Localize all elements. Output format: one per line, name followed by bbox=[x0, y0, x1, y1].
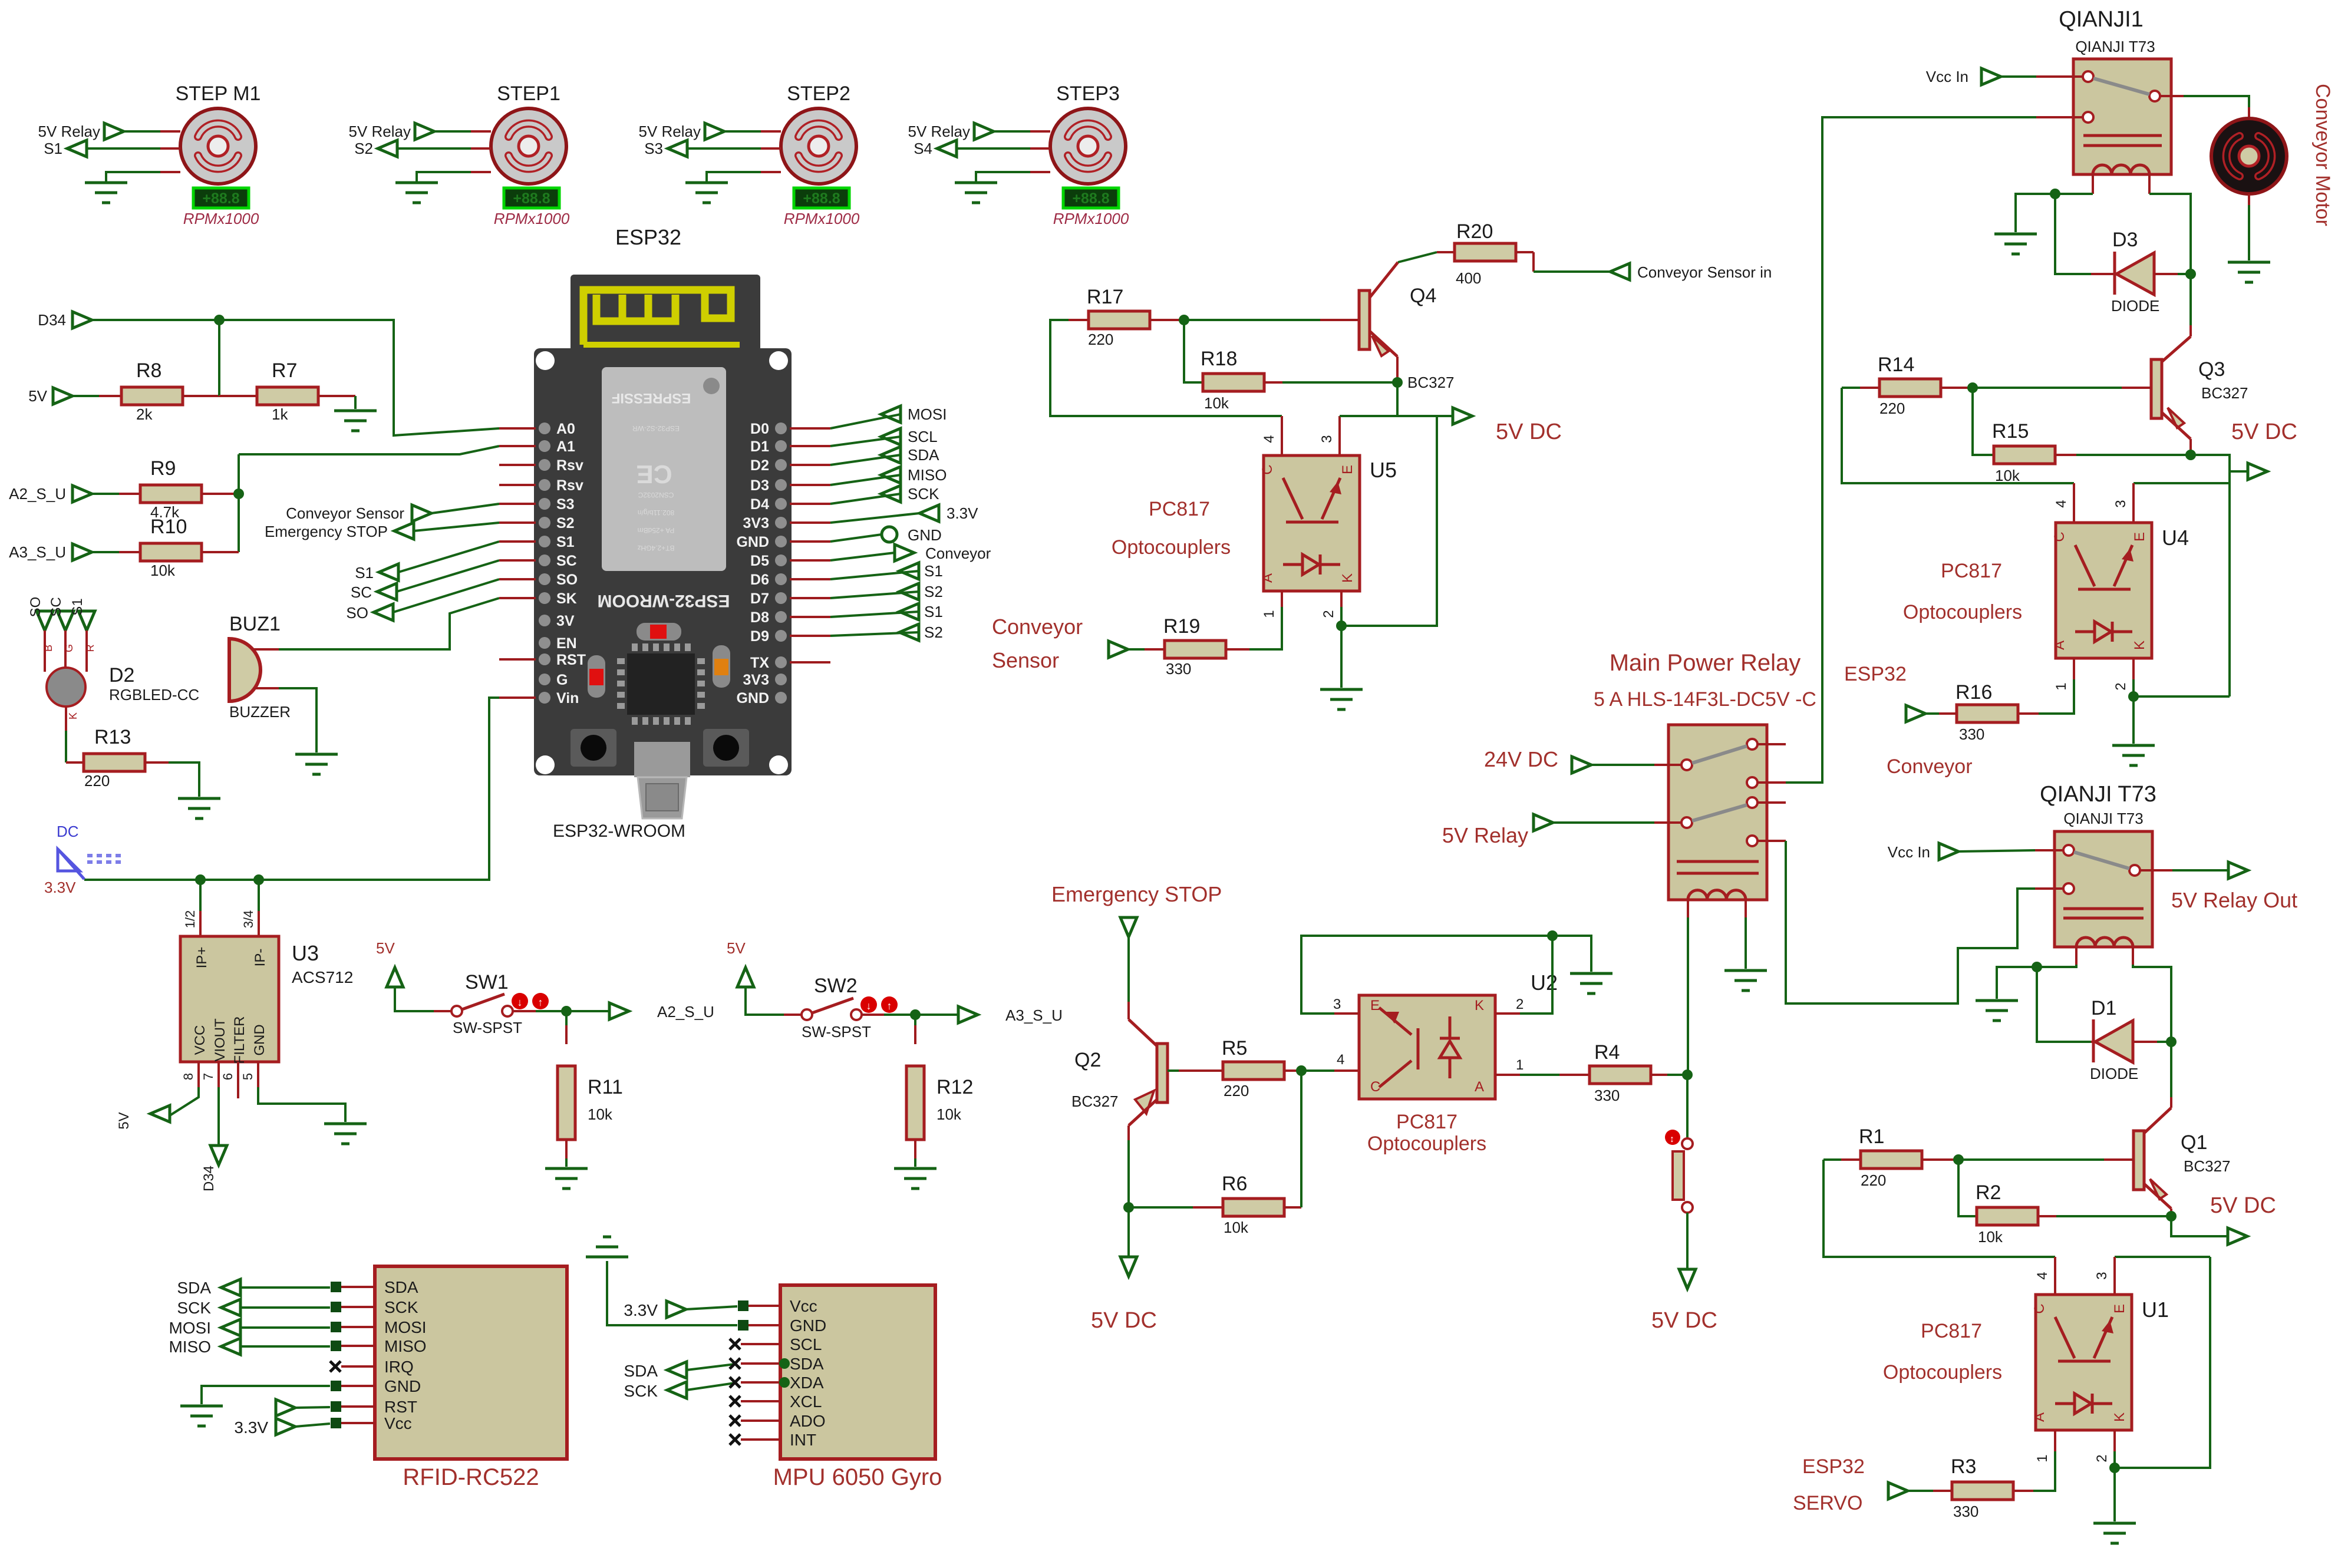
svg-text:VCC: VCC bbox=[192, 1025, 208, 1055]
relay QIANJI1 (QIANJI T73) bbox=[2073, 59, 2171, 174]
terminal S1 (D2) bbox=[78, 611, 95, 630]
terminal S2 (ESP32) bbox=[899, 624, 919, 641]
ground (QIANJI1 coil) bbox=[1994, 233, 2037, 236]
svg-text:SC: SC bbox=[351, 583, 372, 601]
resistor R3 bbox=[2013, 1490, 2033, 1492]
svg-text:Optocouplers: Optocouplers bbox=[1112, 536, 1231, 559]
svg-text:3: 3 bbox=[1333, 996, 1341, 1012]
svg-text:SW1: SW1 bbox=[465, 971, 509, 993]
terminal 5V DC (Q3 out) bbox=[2230, 470, 2248, 473]
svg-text:+88.8: +88.8 bbox=[202, 190, 239, 207]
motor Conveyor Motor bbox=[2211, 118, 2287, 194]
wire base Q4 bbox=[1184, 319, 1320, 321]
svg-text:QIANJI T73: QIANJI T73 bbox=[2040, 782, 2156, 807]
svg-text:D2: D2 bbox=[750, 457, 769, 474]
wire bbox=[1534, 270, 1610, 273]
svg-text:S4: S4 bbox=[914, 140, 932, 157]
resistor R5 bbox=[1223, 1062, 1284, 1080]
ground (R13) bbox=[178, 797, 220, 800]
terminal Conveyor Sensor (to S3) bbox=[412, 505, 431, 521]
wire (U5 pin4 net) bbox=[1050, 320, 1282, 416]
terminal S1 (ESP32) bbox=[899, 563, 919, 579]
svg-text:SDA: SDA bbox=[790, 1355, 824, 1373]
terminal 5V DC (Q2 out) bbox=[1120, 1257, 1137, 1276]
svg-text:S2: S2 bbox=[556, 515, 575, 532]
terminal S2 (ESP32) bbox=[899, 583, 919, 600]
transistor Q1 (BC327) bbox=[2170, 1097, 2172, 1108]
svg-text:R9: R9 bbox=[150, 457, 176, 480]
ground (relay 2) bbox=[1976, 999, 2018, 1002]
terminal MISO (RFID) bbox=[221, 1338, 240, 1355]
svg-text:MPU 6050 Gyro: MPU 6050 Gyro bbox=[773, 1464, 942, 1490]
wire U4 pin4 bbox=[1842, 388, 2074, 483]
wire to 5V DC and U4 bbox=[2191, 455, 2230, 696]
pin stub RST bbox=[499, 658, 536, 661]
svg-text:1: 1 bbox=[2053, 682, 2069, 690]
svg-text:BUZ1: BUZ1 bbox=[229, 613, 281, 635]
resistor R16 bbox=[2018, 712, 2039, 715]
resistor R11 bbox=[565, 1011, 568, 1025]
button right bbox=[703, 729, 749, 767]
svg-text:2: 2 bbox=[2113, 682, 2129, 690]
svg-text:Q1: Q1 bbox=[2181, 1131, 2207, 1154]
terminal MOSI (RFID) bbox=[221, 1319, 240, 1336]
svg-text:RPMx1000: RPMx1000 bbox=[494, 210, 570, 227]
resistor R7 bbox=[219, 395, 257, 397]
wire bbox=[790, 540, 830, 543]
svg-text:G: G bbox=[63, 644, 75, 652]
svg-text:GND: GND bbox=[252, 1024, 268, 1055]
wire bbox=[2133, 695, 2230, 698]
terminal 5V Relay (STEP M1) bbox=[104, 123, 124, 140]
svg-text:CE: CE bbox=[636, 460, 672, 488]
svg-text:MISO: MISO bbox=[908, 466, 947, 484]
svg-text:4: 4 bbox=[2053, 500, 2069, 507]
wire bbox=[790, 464, 830, 466]
terminal 3.3V (ESP32) bbox=[919, 505, 939, 521]
wire to ground (U2) bbox=[1552, 936, 1591, 972]
wire bbox=[790, 616, 830, 618]
svg-text:400: 400 bbox=[1456, 269, 1481, 287]
svg-text:RFID-RC522: RFID-RC522 bbox=[403, 1464, 539, 1490]
wire pin2 (U5) bbox=[1340, 591, 1343, 607]
terminal Conveyor (ESP32 D5) bbox=[895, 544, 914, 561]
svg-text:BC327: BC327 bbox=[2201, 384, 2248, 402]
wire bbox=[1127, 937, 1130, 1002]
svg-text:K: K bbox=[67, 712, 79, 719]
wire bbox=[1667, 1074, 1688, 1076]
svg-text:SW-SPST: SW-SPST bbox=[453, 1019, 522, 1036]
svg-text:RPMx1000: RPMx1000 bbox=[183, 210, 259, 227]
svg-text:3.3V: 3.3V bbox=[44, 879, 76, 896]
wire bbox=[1282, 381, 1397, 384]
wire bbox=[790, 427, 830, 430]
svg-text:330: 330 bbox=[1166, 660, 1191, 678]
svg-text:10k: 10k bbox=[1978, 1228, 2003, 1246]
wire right loop (U1) bbox=[2115, 1257, 2210, 1468]
svg-text:R15: R15 bbox=[1992, 420, 2029, 443]
led red bbox=[637, 623, 681, 641]
svg-text:3V3: 3V3 bbox=[743, 672, 769, 688]
wire bbox=[2076, 454, 2191, 456]
optocoupler U5 (PC817) bbox=[1281, 416, 1283, 455]
svg-text:A: A bbox=[2052, 641, 2067, 650]
svg-text:IP-: IP- bbox=[252, 949, 268, 967]
svg-text:R13: R13 bbox=[94, 726, 131, 748]
stepper motor STEP1 bbox=[491, 108, 566, 184]
svg-text:Q2: Q2 bbox=[1074, 1049, 1101, 1071]
svg-text:5: 5 bbox=[240, 1073, 255, 1080]
pin stub TX bbox=[790, 661, 830, 663]
svg-text:MOSI: MOSI bbox=[908, 405, 947, 423]
ground (RFID) bbox=[180, 1405, 223, 1408]
svg-text:K: K bbox=[1340, 573, 1356, 583]
svg-text:D2: D2 bbox=[109, 664, 134, 686]
wire bbox=[790, 521, 830, 524]
svg-text:5V Relay: 5V Relay bbox=[38, 123, 101, 140]
switch arm 2 bbox=[1692, 805, 1747, 821]
svg-text:Vcc: Vcc bbox=[790, 1297, 817, 1315]
wire bbox=[238, 454, 240, 552]
resistor R2 bbox=[1958, 1160, 1976, 1216]
svg-text:G: G bbox=[556, 672, 568, 688]
svg-text:SCL: SCL bbox=[908, 428, 938, 445]
terminal S1 (ESP32) bbox=[899, 603, 919, 620]
svg-text:D7: D7 bbox=[750, 590, 769, 607]
svg-text:R19: R19 bbox=[1163, 615, 1200, 638]
wire bbox=[354, 396, 357, 409]
wire bbox=[414, 523, 499, 531]
resistor R20 bbox=[1437, 251, 1455, 253]
svg-text:PC817: PC817 bbox=[1921, 1320, 1982, 1342]
svg-text:K: K bbox=[1475, 998, 1484, 1014]
svg-text:BUZZER: BUZZER bbox=[229, 703, 291, 721]
wire bbox=[471, 171, 491, 173]
svg-text:10k: 10k bbox=[936, 1105, 962, 1123]
svg-text:SO: SO bbox=[28, 597, 44, 618]
svg-text:XCL: XCL bbox=[790, 1392, 822, 1411]
wire GND (MPU) bbox=[738, 1320, 748, 1331]
terminal SC (D2) bbox=[57, 611, 74, 630]
wire base Q1 bbox=[1958, 1158, 2104, 1161]
svg-text:BC327: BC327 bbox=[2184, 1157, 2231, 1175]
svg-text:SDA: SDA bbox=[908, 446, 939, 464]
pin ADO (nc) bbox=[730, 1415, 740, 1426]
wire bbox=[240, 1286, 330, 1289]
svg-text:10k: 10k bbox=[1204, 394, 1229, 412]
wire bbox=[258, 1087, 345, 1122]
terminal SCL bbox=[881, 428, 901, 445]
wire coil left to R4 node bbox=[1687, 917, 1689, 1075]
svg-text:STEP3: STEP3 bbox=[1056, 82, 1120, 105]
wire to conveyor motor bbox=[2184, 96, 2249, 107]
optocoupler U4 (PC817) bbox=[2056, 523, 2152, 658]
svg-text:U4: U4 bbox=[2162, 526, 2189, 550]
svg-text:SCK: SCK bbox=[384, 1298, 418, 1316]
terminal ESP32 Conveyor (R16 input) bbox=[1906, 705, 1925, 722]
svg-text:BT+2.4GHz: BT+2.4GHz bbox=[637, 544, 674, 552]
svg-text:R4: R4 bbox=[1594, 1041, 1620, 1064]
wire bbox=[790, 578, 830, 580]
wire bbox=[397, 147, 471, 150]
svg-text:220: 220 bbox=[1088, 331, 1113, 348]
terminal S1 (STEP M1) bbox=[67, 140, 87, 157]
wire bbox=[536, 1010, 609, 1012]
wire bbox=[253, 687, 279, 689]
wire bbox=[790, 597, 830, 599]
svg-text:Conveyor: Conveyor bbox=[992, 615, 1083, 639]
svg-text:3.3V: 3.3V bbox=[624, 1301, 658, 1319]
svg-text:220: 220 bbox=[84, 772, 110, 790]
relay QIANJI T73 (output relay) bbox=[2055, 831, 2152, 947]
wire U1 pin1 bbox=[2054, 1430, 2056, 1451]
wire bbox=[397, 560, 499, 592]
svg-text:SW-SPST: SW-SPST bbox=[802, 1023, 871, 1041]
svg-text:SDA: SDA bbox=[177, 1279, 211, 1297]
pin XCL (nc) bbox=[730, 1396, 740, 1407]
pin INT (nc) bbox=[730, 1434, 740, 1445]
ground (BUZ1) bbox=[295, 753, 338, 756]
svg-text:SK: SK bbox=[556, 590, 577, 607]
terminal Conveyor Sensor in bbox=[1610, 263, 1630, 280]
terminal 5V Relay (STEP1) bbox=[415, 123, 434, 140]
resistor R12 bbox=[914, 1015, 916, 1025]
wire coil right (relay 2) bbox=[2133, 965, 2171, 1042]
terminal SC (left) bbox=[377, 583, 397, 600]
terminal Emergency STOP (to S2) bbox=[394, 523, 414, 539]
module MPU 6050 Gyro bbox=[780, 1285, 935, 1459]
svg-text:ESP32: ESP32 bbox=[1802, 1455, 1865, 1478]
terminal SO (left) bbox=[374, 604, 393, 620]
wire U4 pin1 bbox=[2073, 658, 2075, 679]
RPM display (STEP1) bbox=[504, 188, 559, 208]
wire bbox=[393, 579, 499, 612]
wire bbox=[957, 147, 1030, 150]
svg-text:A: A bbox=[2032, 1412, 2047, 1422]
wire U1 pin2 bbox=[2113, 1430, 2116, 1451]
svg-text:RGBLED-CC: RGBLED-CC bbox=[109, 686, 199, 704]
wire bbox=[1301, 1069, 1334, 1072]
pin 8 bbox=[197, 1062, 200, 1087]
svg-text:D1: D1 bbox=[2091, 997, 2116, 1019]
svg-text:R11: R11 bbox=[588, 1076, 623, 1098]
terminal 5V Relay (STEP3) bbox=[974, 123, 994, 140]
terminal SDA bbox=[881, 447, 901, 463]
svg-text:↑: ↑ bbox=[538, 996, 543, 1008]
terminal 5V DC (Q1 out) bbox=[2171, 1216, 2228, 1236]
svg-text:3: 3 bbox=[2094, 1272, 2110, 1279]
svg-text:QIANJI1: QIANJI1 bbox=[2059, 7, 2144, 32]
wire bbox=[434, 130, 471, 133]
pin 6 bbox=[237, 1062, 239, 1098]
svg-text:R5: R5 bbox=[1222, 1037, 1247, 1059]
svg-text:Q3: Q3 bbox=[2198, 358, 2225, 381]
svg-text:D4: D4 bbox=[750, 496, 769, 513]
terminal MISO bbox=[881, 467, 901, 483]
svg-text:A2_S_U: A2_S_U bbox=[657, 1003, 714, 1021]
resistor R4 bbox=[1559, 1074, 1590, 1076]
svg-text:STEP2: STEP2 bbox=[787, 82, 850, 105]
svg-text:5V: 5V bbox=[28, 387, 47, 405]
svg-text:Conveyor: Conveyor bbox=[1887, 755, 1973, 778]
svg-text:S3: S3 bbox=[556, 496, 575, 513]
antenna trace bbox=[583, 290, 731, 345]
svg-text:S3: S3 bbox=[644, 140, 663, 157]
svg-text:Sensor: Sensor bbox=[992, 648, 1059, 672]
svg-text:D1: D1 bbox=[750, 438, 769, 455]
svg-text:5V Relay: 5V Relay bbox=[349, 123, 411, 140]
ground (MPU, inverted) bbox=[586, 1256, 628, 1259]
svg-text:R1: R1 bbox=[1859, 1125, 1884, 1148]
wire coil right to D3 right bbox=[2149, 194, 2191, 274]
usb connector bbox=[634, 742, 690, 777]
svg-text:R10: R10 bbox=[150, 516, 187, 538]
svg-text:3.3V: 3.3V bbox=[234, 1418, 268, 1437]
svg-text:S1: S1 bbox=[355, 564, 374, 582]
svg-text:R3: R3 bbox=[1951, 1455, 1976, 1478]
svg-text:4: 4 bbox=[1261, 435, 1277, 443]
terminal 5V Relay (STEP2) bbox=[705, 123, 724, 140]
wire SK to buzzer bbox=[279, 598, 499, 649]
wire bbox=[1030, 171, 1050, 173]
stepper motor STEP3 bbox=[1050, 108, 1126, 184]
wire bbox=[790, 484, 830, 486]
svg-text:A2_S_U: A2_S_U bbox=[9, 485, 66, 503]
wire bbox=[761, 171, 781, 173]
svg-text:2k: 2k bbox=[136, 405, 153, 423]
svg-text:R14: R14 bbox=[1878, 354, 1914, 376]
svg-text:E: E bbox=[2112, 1304, 2128, 1313]
svg-text:Conveyor: Conveyor bbox=[925, 544, 991, 562]
wire to D3 left bbox=[2055, 194, 2091, 274]
svg-text:BC327: BC327 bbox=[1407, 374, 1455, 391]
svg-text:Optocouplers: Optocouplers bbox=[1883, 1361, 2002, 1384]
svg-text:8: 8 bbox=[181, 1073, 196, 1080]
svg-text:IP+: IP+ bbox=[194, 947, 210, 969]
svg-text:VIOUT: VIOUT bbox=[212, 1018, 228, 1062]
terminal A2_S_U (input) bbox=[72, 486, 92, 502]
wire bbox=[160, 171, 180, 173]
terminal A3_S_U (out) bbox=[958, 1006, 978, 1023]
wire bbox=[790, 445, 830, 447]
ESP32 board body bbox=[571, 275, 760, 351]
svg-text:5V: 5V bbox=[376, 939, 395, 957]
svg-text:ESP32-WROOM: ESP32-WROOM bbox=[597, 591, 730, 610]
terminal MOSI bbox=[881, 406, 901, 422]
svg-text:1: 1 bbox=[1516, 1057, 1524, 1073]
wire D34 to A0 bbox=[92, 320, 499, 435]
svg-text:B: B bbox=[42, 645, 54, 652]
ground (U3) bbox=[324, 1123, 367, 1125]
wire bbox=[87, 147, 160, 150]
svg-text:S1: S1 bbox=[924, 603, 943, 620]
optocoupler U2 (PC817, mirrored horizontal) bbox=[1359, 995, 1495, 1099]
svg-text:2: 2 bbox=[1516, 996, 1524, 1012]
wire bbox=[431, 504, 499, 513]
button left bbox=[571, 729, 616, 767]
svg-text:INT: INT bbox=[790, 1431, 816, 1449]
svg-text:5V DC: 5V DC bbox=[1091, 1308, 1157, 1333]
svg-text:4: 4 bbox=[1337, 1052, 1344, 1068]
svg-text:STEP1: STEP1 bbox=[497, 82, 560, 105]
resistor R19 bbox=[1128, 648, 1145, 651]
terminal S1 (left) bbox=[379, 564, 398, 580]
ground (R7) bbox=[334, 410, 377, 412]
terminal D34 bbox=[72, 312, 92, 328]
svg-text:R: R bbox=[84, 645, 96, 652]
svg-text:R7: R7 bbox=[272, 359, 297, 382]
svg-text:10k: 10k bbox=[1224, 1219, 1249, 1236]
wire bbox=[240, 1326, 330, 1329]
svg-text:D6: D6 bbox=[750, 572, 769, 588]
wire to ground (U4) bbox=[2132, 696, 2135, 744]
wire bbox=[65, 707, 67, 731]
svg-text:2: 2 bbox=[1321, 610, 1337, 618]
wire coil right to ground bbox=[1745, 917, 1747, 969]
wire to Q1 collector bbox=[2170, 1042, 2172, 1097]
terminal S3 (STEP2) bbox=[668, 140, 687, 157]
svg-text:Optocouplers: Optocouplers bbox=[1367, 1133, 1486, 1155]
base wire Q2 bbox=[1168, 1069, 1179, 1072]
svg-text:3: 3 bbox=[2113, 500, 2129, 507]
svg-text:↑: ↑ bbox=[887, 1000, 892, 1012]
svg-text:SCK: SCK bbox=[908, 485, 939, 503]
resistor R14 bbox=[1842, 387, 1860, 389]
resistor R8 bbox=[72, 395, 99, 397]
svg-text:PC817: PC817 bbox=[1941, 560, 2002, 582]
wire bbox=[218, 320, 220, 396]
terminal SCK (RFID) bbox=[221, 1299, 240, 1316]
svg-text:ESP32: ESP32 bbox=[1844, 663, 1907, 685]
terminal GND (ESP32) bbox=[882, 527, 897, 542]
svg-text:CSN2032C: CSN2032C bbox=[638, 491, 674, 499]
svg-text:24V DC: 24V DC bbox=[1484, 747, 1558, 771]
switch SW1 (SW-SPST) bbox=[434, 1010, 451, 1012]
svg-text:Vin: Vin bbox=[556, 690, 579, 707]
wire bbox=[1686, 1213, 1689, 1268]
terminal S4 (STEP3) bbox=[937, 140, 957, 157]
ground (U2) bbox=[1570, 972, 1612, 975]
current sensor U3 (ACS712) bbox=[199, 911, 202, 936]
wire GND (RFID) bbox=[331, 1381, 341, 1391]
svg-text:K: K bbox=[2112, 1412, 2128, 1422]
terminal RST (RFID) bbox=[276, 1399, 295, 1416]
resistor R10 bbox=[92, 551, 119, 553]
svg-text:3V3: 3V3 bbox=[743, 515, 769, 532]
resistor R6 bbox=[1129, 1206, 1193, 1209]
svg-text:2: 2 bbox=[2094, 1454, 2110, 1462]
svg-text:GND: GND bbox=[908, 526, 942, 544]
svg-text:SCK: SCK bbox=[624, 1382, 658, 1400]
svg-text:SDA: SDA bbox=[384, 1278, 418, 1296]
svg-text:7: 7 bbox=[201, 1073, 216, 1080]
svg-text:↓: ↓ bbox=[517, 996, 523, 1008]
svg-text:5V Relay: 5V Relay bbox=[1442, 823, 1528, 847]
svg-text:RPMx1000: RPMx1000 bbox=[784, 210, 860, 227]
svg-text:5V DC: 5V DC bbox=[1496, 420, 1562, 444]
svg-text:E: E bbox=[1340, 465, 1356, 474]
svg-text:A: A bbox=[1475, 1079, 1484, 1095]
coil pins (QIANJI1) bbox=[2092, 174, 2094, 194]
transistor Q4 (BC327) bbox=[1359, 291, 1370, 349]
svg-text:PC817: PC817 bbox=[1149, 498, 1210, 520]
svg-text:IRQ: IRQ bbox=[384, 1358, 414, 1376]
svg-text:5V Relay Out: 5V Relay Out bbox=[2171, 888, 2297, 912]
resistor R1 bbox=[1823, 1158, 1841, 1161]
svg-text:SO: SO bbox=[346, 604, 368, 622]
svg-text:A3_S_U: A3_S_U bbox=[1005, 1006, 1063, 1024]
svg-text:R6: R6 bbox=[1222, 1173, 1247, 1195]
